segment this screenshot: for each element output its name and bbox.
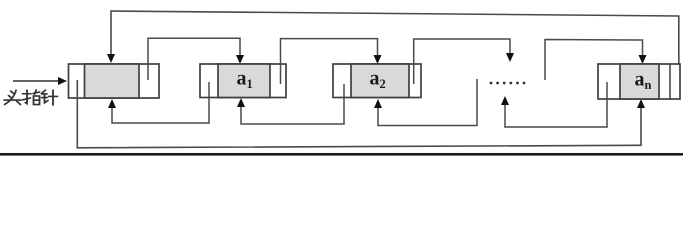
node a2 (333, 64, 421, 98)
node an (598, 64, 680, 99)
针 (42, 90, 46, 93)
wire an.prev (to ellipsis bottom) (501, 82, 607, 127)
label 头指针 (head pointer text, hand-drawn strokes) (4, 90, 58, 105)
wire a1.next (to a2 top) (281, 39, 382, 84)
head pointer arrow (13, 77, 67, 85)
wire a2.next (to ellipsis top) (414, 39, 514, 84)
wire an.next (long top wire to head top) (107, 11, 679, 89)
头 (11, 91, 15, 94)
wire head.next (to a1 top) (148, 38, 244, 80)
head node (69, 64, 160, 98)
ellipsis dots (omitted nodes) (490, 82, 526, 85)
wire a1.prev (to head bottom) (108, 82, 209, 123)
bottom black rule (0, 153, 683, 156)
node a1 (200, 64, 286, 98)
wire phantom.prev (from ellipsis to a2 bottom) (374, 79, 477, 126)
指 (23, 93, 32, 95)
wire head.prev (long bottom wire to an bottom) (77, 80, 645, 148)
wire phantom.next (from ellipsis to an top) (545, 40, 647, 81)
wire a2.prev (to a1 bottom) (237, 84, 344, 124)
